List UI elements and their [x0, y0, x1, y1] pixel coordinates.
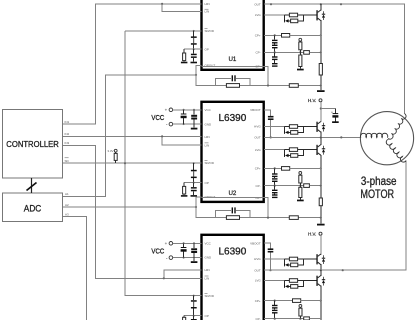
- wire HVG2: [264, 126, 284, 128]
- bus wire controller-ADC: [27, 178, 37, 193]
- svg-text:HIN: HIN: [205, 2, 210, 6]
- svg-text:CP-: CP-: [256, 51, 261, 55]
- resistor R-OP2 to ground: [181, 183, 188, 197]
- svg-text:VCC: VCC: [205, 242, 212, 246]
- wire LVG1: [264, 14, 284, 16]
- wire OUT2 to motor: [264, 136, 361, 138]
- terminal VCC- (U3): [169, 256, 173, 260]
- svg-text:IN1: IN1: [65, 120, 70, 124]
- svg-text:LIN: LIN: [205, 10, 210, 14]
- capacitor C-OP2 to ground: [191, 183, 198, 197]
- resistor R-CP+2: [282, 167, 321, 171]
- op-amp/driver U3 (L6390, bottom, cut off): [202, 235, 264, 320]
- resistor Rg-on HVG3: [284, 257, 303, 261]
- wire OP3: [184, 315, 201, 317]
- wire A1 to OPOUT1: [63, 74, 197, 197]
- svg-text:L6390: L6390: [218, 247, 246, 258]
- capacitor C-OP1 to ground: [191, 49, 198, 63]
- svg-text:LIN: LIN: [205, 143, 210, 147]
- capacitor C-CP1b (CP- to gnd): [272, 52, 278, 66]
- wire IN3 to HIN3/LIN3: [63, 145, 202, 279]
- capacitor C-boot2 (VBOOT to OUT): [264, 110, 274, 139]
- svg-text:HIN: HIN: [205, 268, 210, 272]
- resistor R-OP3 to ground (cut off): [183, 316, 186, 320]
- capacitor C-OP3 (cut off): [191, 316, 197, 320]
- diode + resistor Rg-off HVG3: [284, 259, 303, 267]
- svg-text:IN3: IN3: [65, 141, 70, 145]
- wire A2 to OPOUT2: [63, 206, 197, 208]
- wire CP-1: [264, 51, 304, 53]
- svg-text:VCC: VCC: [151, 247, 164, 256]
- resistor R-sense1: [319, 64, 322, 91]
- wire OPOUT1 feedback loop: [196, 65, 321, 85]
- resistor R-div3a: [299, 307, 302, 318]
- terminal VCC+ (U2): [169, 108, 173, 112]
- wire CP+2: [264, 167, 322, 169]
- svg-text:LVG: LVG: [255, 148, 261, 152]
- winding phase A (left): [361, 133, 388, 137]
- wire OPOUT2 feedback loop: [196, 197, 321, 218]
- terminal Vref1: [299, 38, 302, 41]
- svg-text:VBOOT: VBOOT: [250, 108, 261, 112]
- resistor R-CP-2 to sense rail: [304, 184, 322, 188]
- svg-text:A3: A3: [65, 212, 69, 216]
- diode D3-low (freewheel): [322, 277, 325, 286]
- svg-text:U1: U1: [228, 56, 236, 63]
- resistor SD pull-up 3.3V: [107, 149, 117, 163]
- terminal Vref2: [299, 172, 302, 175]
- svg-text:OUT: OUT: [254, 268, 261, 272]
- diode + resistor Rg-off LVG2: [284, 150, 303, 158]
- resistor R-div2a: [299, 174, 302, 185]
- wire CP+3: [264, 300, 322, 302]
- diode D2-high (freewheel): [322, 123, 325, 132]
- wire HV3 down to Q3-high: [320, 235, 322, 255]
- resistor R-FB2: [226, 216, 239, 220]
- svg-text:U2: U2: [228, 190, 236, 197]
- controller pin labels: [65, 120, 70, 216]
- svg-text:CP-: CP-: [256, 184, 261, 188]
- transistor Q3-low: [304, 270, 321, 320]
- svg-text:GND: GND: [205, 256, 213, 260]
- ground (sense2): [317, 224, 325, 226]
- svg-text:VCC: VCC: [205, 108, 212, 112]
- terminal VCC+ (U3): [169, 242, 173, 246]
- capacitor C-HV2 to ground: [321, 109, 339, 124]
- diode D3-high (freewheel): [322, 255, 325, 264]
- svg-text:HIN: HIN: [205, 135, 210, 139]
- svg-text:+: +: [165, 107, 168, 112]
- capacitor C-SD1 (SD/OD to OP line): [191, 30, 197, 49]
- resistor R-div1b to ground: [297, 52, 304, 70]
- capacitor C-FB1 (parallel branch): [216, 75, 251, 85]
- resistor R-FB1: [226, 84, 239, 88]
- wire LVG3: [264, 280, 284, 282]
- wire IN2 to HIN2/LIN2: [63, 135, 202, 145]
- svg-text:OUT: OUT: [254, 135, 261, 139]
- svg-text:3-phase: 3-phase: [361, 174, 397, 188]
- diode + resistor Rg-off HVG2: [284, 127, 303, 135]
- ground (sense1): [317, 90, 325, 92]
- svg-text:L6390: L6390: [218, 113, 246, 124]
- diode + resistor Rg-off LVG1: [284, 15, 303, 23]
- svg-text:SD/OD: SD/OD: [205, 29, 215, 33]
- wire OUT1 to motor: [264, 3, 405, 113]
- controller block: [3, 110, 63, 179]
- wire OP-1 riser: [264, 67, 269, 87]
- svg-text:SD/OD: SD/OD: [205, 294, 215, 298]
- capacitor C-FB2 (parallel branch): [216, 207, 251, 217]
- wire OP1: [184, 48, 201, 50]
- capacitor C-SD2: [191, 162, 197, 182]
- ground (U2 VCC): [191, 124, 198, 129]
- resistor R-div1a: [299, 41, 302, 52]
- 3-phase motor body: [360, 112, 413, 201]
- svg-text:CP+: CP+: [255, 299, 261, 303]
- wire VCC rail U2: [173, 109, 202, 125]
- resistor R-CP-3 to sense rail: [304, 317, 321, 320]
- op-amp/driver U1 (L6390, top, cut off): [202, 0, 264, 70]
- svg-text:CP+: CP+: [255, 34, 261, 38]
- svg-text:LIN: LIN: [205, 277, 210, 281]
- ADC block: [3, 193, 63, 222]
- winding phase C (bottom right): [386, 139, 406, 162]
- transistor Q2-low: [304, 137, 321, 198]
- svg-text:OP: OP: [205, 181, 209, 185]
- capacitor C-CP3a (CP+ to CP-): [272, 301, 278, 319]
- capacitor electrolytic (U2 VCC): [181, 110, 187, 124]
- resistor R-FB2b (op-amp loop to sense rail): [289, 216, 298, 220]
- diode D1-low (freewheel): [322, 11, 325, 20]
- svg-text:LVG: LVG: [255, 13, 261, 17]
- terminal H.V. (phase 2): [308, 98, 322, 103]
- svg-text:3.3V: 3.3V: [107, 149, 113, 153]
- wire OUT3 to motor: [264, 161, 406, 272]
- svg-text:CP+: CP+: [255, 167, 261, 171]
- capacitor ceramic (U2 VCC): [191, 110, 197, 124]
- svg-text:+: +: [165, 241, 168, 246]
- wire LVG2: [264, 149, 284, 151]
- wire OP-2 riser: [264, 198, 269, 219]
- svg-text:H.V.: H.V.: [308, 98, 316, 103]
- terminal Vref3: [299, 305, 302, 308]
- svg-text:MOTOR: MOTOR: [360, 187, 394, 201]
- resistor R-div2b to ground: [297, 186, 304, 202]
- wire IN1 to HIN1/LIN1: [63, 3, 202, 125]
- svg-text:HVG: HVG: [254, 125, 261, 129]
- svg-text:LVG: LVG: [255, 279, 261, 283]
- svg-text:A1: A1: [65, 192, 69, 196]
- svg-text:ADC: ADC: [24, 203, 42, 214]
- svg-text:HVG: HVG: [254, 257, 261, 261]
- resistor Rg-on LVG3: [284, 279, 303, 283]
- capacitor electrolytic (U3 VCC): [181, 243, 187, 257]
- capacitor ceramic (U3 VCC): [191, 243, 197, 257]
- capacitor C-CP2b (CP- to gnd): [272, 186, 278, 198]
- resistor R-OP1 to ground: [181, 49, 188, 63]
- resistor Rg-on LVG2: [284, 148, 303, 152]
- transistor Q1-low: [304, 4, 321, 63]
- wire HV2 down to Q2-high: [320, 102, 322, 122]
- wire CP-3: [264, 318, 304, 320]
- svg-text:VBOOT: VBOOT: [250, 241, 261, 245]
- resistor Rg-on HVG2: [284, 125, 303, 129]
- wire HVG3: [264, 258, 284, 260]
- resistor R-CP+1: [282, 34, 321, 38]
- ground (U3 VCC): [191, 258, 198, 263]
- svg-text:A2: A2: [65, 203, 69, 207]
- svg-text:GND: GND: [205, 122, 213, 126]
- svg-text:OUT: OUT: [254, 2, 261, 6]
- svg-text:SD/OD: SD/OD: [205, 161, 215, 165]
- wire CP-2: [264, 185, 304, 187]
- transistor Q3-high: [304, 254, 321, 270]
- capacitor C-CP1a (CP+ to CP-): [272, 35, 278, 52]
- terminal VCC- (U2): [169, 122, 173, 126]
- diode + resistor Rg-off LVG3: [284, 281, 303, 289]
- terminal H.V. (phase 3): [308, 231, 322, 236]
- wire VCC rail U3: [173, 242, 202, 258]
- diode D2-low (freewheel): [322, 146, 325, 155]
- resistor R-CP+3: [293, 299, 321, 303]
- capacitor C-CP2a (CP+ to CP-): [272, 168, 278, 185]
- svg-text:OP: OP: [205, 47, 209, 51]
- transistor Q2-high: [304, 122, 321, 138]
- svg-text:OPOUT: OPOUT: [205, 195, 216, 199]
- wire CP+1: [264, 34, 322, 36]
- resistor R-sense2: [319, 198, 322, 224]
- resistor Rg-on LVG1: [284, 13, 303, 17]
- svg-text:OP: OP: [205, 314, 209, 318]
- svg-text:CONTROLLER: CONTROLLER: [6, 139, 59, 149]
- svg-text:IN2: IN2: [65, 132, 70, 136]
- resistor R-FB1b (op-amp loop to sense rail): [289, 84, 298, 88]
- svg-text:H.V.: H.V.: [308, 231, 316, 236]
- svg-text:VCC: VCC: [151, 113, 164, 122]
- wire SD net: [63, 31, 202, 296]
- wire OP2: [184, 182, 201, 184]
- resistor R-CP-1 to sense rail: [304, 51, 322, 55]
- winding phase B (top right): [388, 114, 406, 140]
- capacitor C-boot3 (VBOOT to OUT): [264, 243, 273, 271]
- capacitor C-SD3: [191, 295, 197, 316]
- op-amp/driver U2 (L6390, middle): [202, 102, 264, 202]
- wire A3 down to U3 op-amp (off-page): [63, 216, 87, 320]
